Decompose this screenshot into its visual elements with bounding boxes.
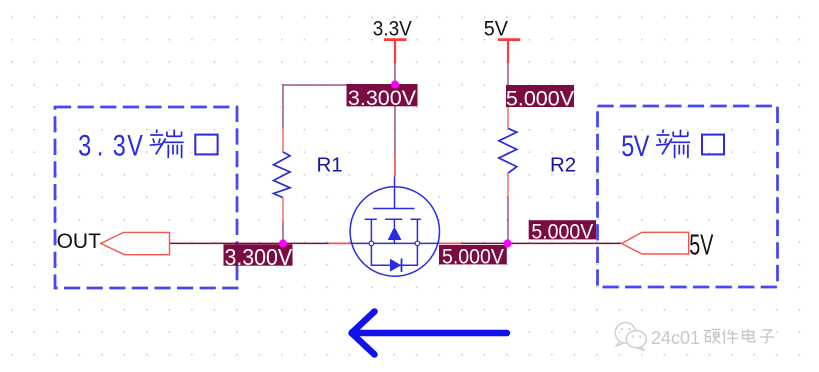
svg-text:5.000V: 5.000V: [531, 221, 593, 244]
svg-text:5V: 5V: [689, 230, 713, 262]
svg-text:5.000V: 5.000V: [442, 246, 504, 269]
svg-text:.: .: [97, 129, 104, 162]
svg-text:3.300V: 3.300V: [348, 86, 417, 110]
svg-text:3.300V: 3.300V: [224, 244, 292, 270]
svg-text:5.000V: 5.000V: [506, 86, 575, 110]
svg-text:5: 5: [621, 129, 634, 162]
svg-text:5V: 5V: [484, 18, 509, 41]
svg-text:V: V: [127, 129, 143, 162]
svg-text:3: 3: [78, 129, 91, 162]
svg-text:R2: R2: [550, 153, 576, 176]
svg-text:3: 3: [113, 129, 126, 162]
svg-text:24c01: 24c01: [651, 328, 700, 348]
svg-text:V: V: [634, 129, 650, 162]
svg-text:3.3V: 3.3V: [373, 18, 413, 41]
svg-text:OUT: OUT: [57, 230, 102, 253]
svg-text:R1: R1: [317, 153, 343, 176]
